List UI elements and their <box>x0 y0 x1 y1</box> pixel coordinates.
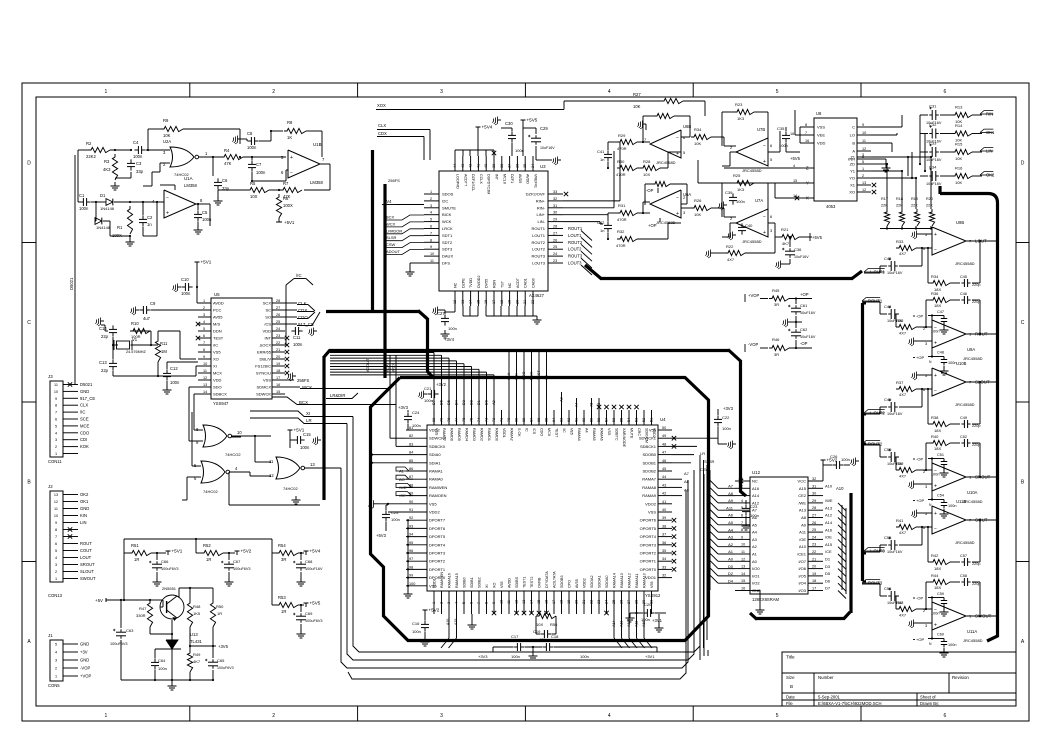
svg-text:C67: C67 <box>233 559 241 564</box>
svg-text:1K3: 1K3 <box>737 187 745 192</box>
svg-text:A0: A0 <box>752 559 758 564</box>
capacitor C3 <box>130 159 132 163</box>
svg-text:42: 42 <box>469 164 473 168</box>
svg-text:DV55: DV55 <box>485 279 489 288</box>
svg-text:28: 28 <box>812 506 816 510</box>
svg-text:C35: C35 <box>777 126 785 131</box>
svg-text:SMUTE: SMUTE <box>442 205 456 210</box>
wire <box>285 316 297 318</box>
svg-text:R14: R14 <box>955 123 963 128</box>
ground <box>238 138 242 140</box>
svg-text:RAMA13: RAMA13 <box>620 573 624 588</box>
svg-text:C8: C8 <box>247 131 253 136</box>
svg-text:71: 71 <box>500 418 504 422</box>
svg-text:SDT1: SDT1 <box>442 233 453 238</box>
svg-text:48: 48 <box>662 442 666 446</box>
ground <box>438 309 442 311</box>
svg-text:A7: A7 <box>728 484 734 489</box>
svg-text:ACDT: ACDT <box>516 277 520 288</box>
diode D1 <box>106 199 113 206</box>
svg-text:Y: Y <box>806 181 809 186</box>
diode D2 <box>95 218 102 225</box>
ground <box>156 578 158 582</box>
svg-text:Title: Title <box>786 655 795 660</box>
svg-text:57: 57 <box>605 418 609 422</box>
svg-text:100uF6V3: 100uF6V3 <box>110 642 128 646</box>
svg-text:83: 83 <box>409 442 413 446</box>
svg-text:A13: A13 <box>825 505 833 510</box>
svg-text:100n: 100n <box>256 170 266 175</box>
power +5V2 <box>822 460 824 464</box>
svg-text:4: 4 <box>55 556 57 560</box>
svg-text:VS5: VS5 <box>213 350 221 355</box>
ground <box>856 460 860 462</box>
svg-text:BICK: BICK <box>442 212 452 217</box>
svg-text:VEE: VEE <box>817 133 825 138</box>
resistor R2 <box>88 147 110 152</box>
wire <box>278 189 280 191</box>
svg-text:I/O6: I/O6 <box>798 566 806 571</box>
power +5V1 <box>167 551 169 555</box>
svg-text:4: 4 <box>741 499 743 503</box>
svg-text:Sheet of: Sheet of <box>920 695 936 700</box>
ic U8 right pins <box>857 126 871 128</box>
svg-text:23: 23 <box>553 259 557 263</box>
svg-text:R22: R22 <box>726 244 734 249</box>
svg-text:R27: R27 <box>633 92 641 97</box>
svg-text:C22: C22 <box>722 415 730 420</box>
svg-text:XI: XI <box>213 364 217 369</box>
svg-text:C68: C68 <box>305 559 313 564</box>
svg-text:C33: C33 <box>929 141 937 146</box>
wire RIN+ <box>563 200 620 202</box>
svg-text:LOOP#D: LOOP#D <box>456 174 460 189</box>
svg-text:10K: 10K <box>633 104 641 109</box>
svg-text:100n: 100n <box>722 426 731 431</box>
resistor R23 <box>734 109 754 114</box>
svg-text:16: 16 <box>276 383 280 387</box>
svg-text:11: 11 <box>741 550 745 554</box>
svg-text:MCE: MCE <box>80 423 90 428</box>
svg-text:11: 11 <box>862 139 866 143</box>
svg-text:C60: C60 <box>937 633 944 637</box>
svg-text:−: − <box>676 195 679 201</box>
svg-text:SROUT: SROUT <box>80 562 95 567</box>
svg-text:1: 1 <box>430 190 432 194</box>
op-amp U1A <box>164 190 196 218</box>
svg-text:15: 15 <box>741 579 745 583</box>
svg-text:AVD5: AVD5 <box>518 174 522 183</box>
svg-text:TL431: TL431 <box>190 639 203 644</box>
svg-text:D5021: D5021 <box>69 277 74 290</box>
svg-text:1R: 1R <box>281 609 286 614</box>
svg-text:15: 15 <box>793 179 797 183</box>
svg-text:-OP: -OP <box>916 314 923 319</box>
svg-text:100n: 100n <box>293 342 303 347</box>
svg-text:46: 46 <box>662 459 666 463</box>
svg-text:14: 14 <box>741 572 745 576</box>
svg-text:+: + <box>934 232 937 238</box>
capacitor C26 <box>832 464 836 466</box>
ground <box>885 164 887 168</box>
svg-text:16: 16 <box>545 600 549 604</box>
svg-text:100n: 100n <box>511 654 520 659</box>
svg-text:11: 11 <box>54 507 58 511</box>
svg-text:U1B: U1B <box>313 142 322 147</box>
svg-text:43: 43 <box>461 164 465 168</box>
svg-text:LOUT1: LOUT1 <box>532 233 546 238</box>
svg-text:C: C <box>1021 320 1025 326</box>
svg-text:10X: 10X <box>643 172 650 177</box>
capacitor C64 <box>154 658 156 662</box>
resistor R26 <box>691 205 711 210</box>
svg-text:D6: D6 <box>440 400 444 405</box>
svg-text:+5V: +5V <box>95 598 103 603</box>
svg-text:84: 84 <box>409 451 413 455</box>
svg-text:A5: A5 <box>590 403 594 407</box>
svg-text:+: + <box>166 211 169 217</box>
svg-text:+VOP: +VOP <box>80 674 91 679</box>
wire <box>388 511 406 513</box>
svg-text:29: 29 <box>553 218 557 222</box>
svg-text:C19: C19 <box>533 629 541 634</box>
svg-text:220p: 220p <box>972 300 980 304</box>
svg-text:23: 23 <box>276 334 280 338</box>
svg-text:28: 28 <box>635 600 639 604</box>
svg-text:C21: C21 <box>424 386 432 391</box>
svg-text:53: 53 <box>635 418 639 422</box>
svg-text:3: 3 <box>55 438 57 442</box>
svg-text:4K7: 4K7 <box>782 241 790 246</box>
svg-text:22K: 22K <box>911 204 918 208</box>
svg-text:VREF#1: VREF#1 <box>534 174 538 188</box>
capacitor C17 <box>513 646 517 648</box>
ground <box>643 123 647 125</box>
svg-text:+: + <box>934 623 937 629</box>
svg-text:SDBCK0: SDBCK0 <box>429 444 446 449</box>
svg-text:35: 35 <box>662 549 666 553</box>
svg-text:GND: GND <box>80 506 89 511</box>
svg-text:24: 24 <box>553 252 557 256</box>
resistor R34 <box>691 134 711 139</box>
bus wire vertical <box>371 150 374 312</box>
svg-text:2: 2 <box>55 667 57 671</box>
svg-text:LOUT3: LOUT3 <box>568 261 582 266</box>
svg-text:/IC: /IC <box>562 428 566 433</box>
svg-text:OPORT0: OPORT0 <box>640 567 657 572</box>
svg-text:SDOB0: SDOB0 <box>642 452 656 457</box>
svg-text:18: 18 <box>276 369 280 373</box>
svg-text:R34: R34 <box>931 274 939 279</box>
wire <box>197 204 199 210</box>
svg-text:R56: R56 <box>550 622 558 627</box>
svg-text:I/O4: I/O4 <box>798 581 806 586</box>
svg-text:16: 16 <box>805 139 809 143</box>
svg-text:17: 17 <box>492 300 496 304</box>
resistor R54 <box>276 550 298 555</box>
svg-text:R29: R29 <box>618 133 626 138</box>
resistor R50 <box>210 600 215 627</box>
svg-text:/WE: /WE <box>798 500 806 505</box>
svg-text:1: 1 <box>432 602 436 604</box>
capacitor C2 <box>142 215 144 219</box>
svg-text:C26: C26 <box>830 454 838 459</box>
svg-text:6: 6 <box>55 542 57 546</box>
capacitor C10 <box>181 286 185 288</box>
ic U5 right pins <box>272 302 285 304</box>
svg-text:INT: INT <box>495 174 499 181</box>
svg-text:ROUT1: ROUT1 <box>531 226 545 231</box>
svg-text:7: 7 <box>477 602 481 604</box>
svg-text:COUT: COUT <box>80 548 92 553</box>
svg-text:SO: SO <box>265 315 271 320</box>
svg-text:VDD: VDD <box>213 378 222 383</box>
svg-text:2: 2 <box>55 570 57 574</box>
svg-text:CE2: CE2 <box>798 493 807 498</box>
resistor U6A feedback <box>652 181 670 186</box>
svg-text:33: 33 <box>553 190 557 194</box>
svg-text:−: − <box>763 214 766 220</box>
svg-text:27: 27 <box>276 306 280 310</box>
svg-text:-OP: -OP <box>916 457 923 462</box>
svg-text:−: − <box>934 389 937 395</box>
svg-text:D: D <box>27 161 31 167</box>
svg-text:C45: C45 <box>960 275 967 279</box>
svg-text:/CS: /CS <box>532 428 536 435</box>
svg-text:1K: 1K <box>287 135 292 140</box>
capacitor C61 <box>795 305 797 308</box>
svg-text:1K5: 1K5 <box>193 611 201 616</box>
svg-text:10K: 10K <box>955 156 962 161</box>
svg-text:220p: 220p <box>972 562 980 566</box>
svg-text:D5021: D5021 <box>80 382 93 387</box>
wire <box>564 100 661 102</box>
svg-text:10uF16V: 10uF16V <box>887 412 903 416</box>
svg-text:6: 6 <box>55 418 57 422</box>
svg-text:26: 26 <box>812 521 816 525</box>
svg-text:JRC4558D: JRC4558D <box>742 168 762 173</box>
svg-text:U11A: U11A <box>967 629 977 634</box>
svg-text:18X: 18X <box>934 446 941 451</box>
svg-text:11: 11 <box>54 383 58 387</box>
svg-text:Y1: Y1 <box>850 169 856 174</box>
svg-text:+5V4: +5V4 <box>310 549 321 554</box>
capacitor C41 <box>607 150 609 154</box>
svg-text:DSPDTC3M: DSPDTC3M <box>487 174 491 194</box>
wire <box>131 330 151 332</box>
svg-text:8: 8 <box>55 404 57 408</box>
svg-text:C65: C65 <box>217 658 225 663</box>
svg-text:18: 18 <box>500 300 504 304</box>
svg-text:LM358: LM358 <box>310 180 323 185</box>
svg-text:100uF6V3: 100uF6V3 <box>305 619 323 623</box>
svg-text:SLSR: SLSR <box>704 459 715 464</box>
svg-text:RAMD3: RAMD3 <box>472 428 476 441</box>
capacitor C30 <box>511 131 513 135</box>
svg-text:1M: 1M <box>161 349 167 354</box>
svg-text:28: 28 <box>276 299 280 303</box>
capacitor C1 <box>79 201 83 203</box>
svg-text:OPORT2: OPORT2 <box>640 551 657 556</box>
svg-text:ZD: ZD <box>850 162 855 167</box>
svg-text:DBL/V: DBL/V <box>259 357 271 362</box>
svg-text:/IC: /IC <box>80 410 85 415</box>
svg-text:LRCK: LRCK <box>442 226 453 231</box>
svg-text:MCX: MCX <box>530 371 534 380</box>
svg-text:27: 27 <box>553 231 557 235</box>
svg-text:10: 10 <box>54 390 58 394</box>
svg-text:C56: C56 <box>884 586 892 591</box>
svg-text:10uF16V: 10uF16V <box>887 271 903 275</box>
svg-text:95: 95 <box>409 541 413 545</box>
svg-text:A10: A10 <box>799 544 807 549</box>
svg-text:+: + <box>290 155 293 161</box>
svg-text:A11: A11 <box>635 621 639 627</box>
capacitor C19 <box>540 633 544 635</box>
svg-text:A3: A3 <box>560 397 564 402</box>
svg-text:100n: 100n <box>424 398 433 403</box>
svg-text:D2: D2 <box>728 571 734 576</box>
svg-text:C2: C2 <box>147 215 153 220</box>
ic U12 left pins <box>735 480 750 482</box>
svg-text:8: 8 <box>430 238 432 242</box>
svg-text:917_CE: 917_CE <box>80 396 95 401</box>
svg-text:U2A: U2A <box>163 139 171 144</box>
wire <box>189 627 191 646</box>
svg-text:R3: R3 <box>104 159 110 164</box>
svg-text:SDBTC: SDBTC <box>615 428 619 441</box>
svg-text:10uF16V: 10uF16V <box>794 255 809 259</box>
svg-text:11: 11 <box>507 600 511 604</box>
svg-text:M/S: M/S <box>213 322 220 327</box>
svg-text:3: 3 <box>440 713 443 719</box>
svg-text:3: 3 <box>55 563 57 567</box>
svg-text:15: 15 <box>276 390 280 394</box>
svg-text:VCC: VCC <box>798 479 807 484</box>
capacitor C62 <box>795 329 797 332</box>
svg-text:C25: C25 <box>391 510 399 515</box>
svg-text:A11: A11 <box>799 530 807 535</box>
svg-text:−: − <box>934 527 937 533</box>
svg-text:C16: C16 <box>412 621 420 626</box>
svg-text:TEST: TEST <box>537 370 541 380</box>
svg-text:RAMA12: RAMA12 <box>628 573 632 588</box>
svg-text:C40: C40 <box>745 223 753 228</box>
svg-text:12: 12 <box>203 376 207 380</box>
svg-text:+5V5: +5V5 <box>527 118 538 123</box>
svg-text:XOX: XOX <box>377 103 386 108</box>
svg-text:62: 62 <box>567 418 571 422</box>
svg-text:VE5: VE5 <box>570 428 574 435</box>
svg-text:A: A <box>852 149 855 154</box>
svg-text:TST: TST <box>500 280 504 288</box>
svg-text:100X: 100X <box>112 233 122 238</box>
svg-text:12: 12 <box>862 147 866 151</box>
svg-text:100n: 100n <box>412 423 421 428</box>
svg-text:U5: U5 <box>214 292 220 297</box>
svg-text:100n: 100n <box>736 199 745 204</box>
svg-text:23: 23 <box>597 600 601 604</box>
svg-text:2: 2 <box>203 306 205 310</box>
svg-text:10uF16V: 10uF16V <box>887 319 903 323</box>
svg-text:SDIB2: SDIB2 <box>478 577 482 588</box>
wire <box>95 202 97 221</box>
svg-text:C32: C32 <box>929 122 937 127</box>
svg-text:10: 10 <box>237 430 242 435</box>
svg-text:100n: 100n <box>158 666 167 671</box>
svg-text:MCLX: MCLX <box>502 174 506 185</box>
svg-text:94: 94 <box>409 533 413 537</box>
svg-text:4: 4 <box>455 602 459 604</box>
wire <box>286 169 288 171</box>
wire <box>112 337 114 345</box>
svg-text:13: 13 <box>310 462 315 467</box>
svg-text:24: 24 <box>276 327 280 331</box>
svg-text:I/O0: I/O0 <box>752 566 760 571</box>
svg-text:CLX: CLX <box>507 372 511 380</box>
svg-text:8: 8 <box>485 602 489 604</box>
svg-text:/IC: /IC <box>545 375 549 380</box>
op-amp U1B <box>288 150 320 178</box>
svg-text:18: 18 <box>560 600 564 604</box>
svg-text:D4: D4 <box>728 578 734 583</box>
svg-text:10uF16V: 10uF16V <box>926 182 942 186</box>
resistor R46 <box>769 345 789 350</box>
svg-text:GND: GND <box>80 658 89 663</box>
svg-text:RAMA6: RAMA6 <box>600 428 604 441</box>
resistor R52 <box>201 550 223 555</box>
wire RIN- <box>563 207 614 209</box>
wire SDIA to bus <box>372 454 407 456</box>
svg-text:33p: 33p <box>136 169 144 174</box>
ground <box>532 652 534 656</box>
svg-text:VDO1: VDO1 <box>645 575 657 580</box>
svg-text:TVDD: TVDD <box>469 278 473 288</box>
svg-text:CPO: CPO <box>568 580 572 588</box>
svg-text:R7: R7 <box>283 181 289 186</box>
resistor R48 <box>187 600 192 627</box>
svg-text:1n: 1n <box>600 228 604 233</box>
svg-text:9: 9 <box>862 123 864 127</box>
svg-text:4: 4 <box>55 651 57 655</box>
ground <box>374 503 378 505</box>
svg-text:I/O2: I/O2 <box>752 581 760 586</box>
svg-text:SLSR: SLSR <box>386 235 397 240</box>
svg-text:CON5: CON5 <box>48 683 60 688</box>
svg-text:C49: C49 <box>884 397 892 402</box>
svg-text:5: 5 <box>862 160 864 164</box>
ground <box>129 238 131 242</box>
svg-text:40: 40 <box>484 164 488 168</box>
svg-text:11: 11 <box>430 259 434 263</box>
svg-text:−: − <box>763 143 766 149</box>
svg-text:U10A: U10A <box>967 490 978 495</box>
svg-text:7: 7 <box>741 521 743 525</box>
svg-text:5: 5 <box>430 218 432 222</box>
svg-text:CDI: CDI <box>80 437 87 442</box>
svg-text:3: 3 <box>203 313 205 317</box>
svg-text:RAMD4: RAMD4 <box>465 428 469 441</box>
svg-text:4K7: 4K7 <box>193 659 201 664</box>
bus wire right output column <box>940 192 988 195</box>
wire bundle left of SRAM <box>699 455 701 648</box>
svg-text:OPORT1: OPORT1 <box>640 559 657 564</box>
ground <box>136 309 140 311</box>
svg-text:FS128/C: FS128/C <box>255 364 271 369</box>
svg-text:CDO: CDO <box>522 372 526 380</box>
svg-text:C10: C10 <box>181 277 189 282</box>
nor gate U2D <box>276 457 300 479</box>
